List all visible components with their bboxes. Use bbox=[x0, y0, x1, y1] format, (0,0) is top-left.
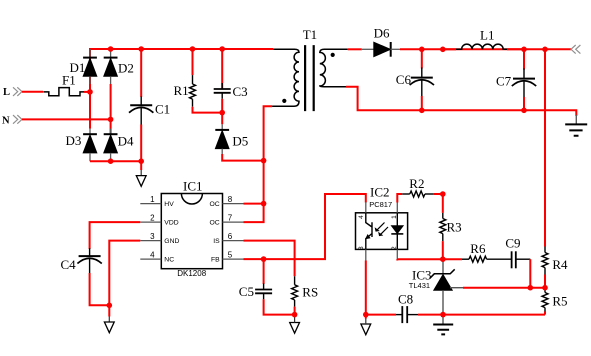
T1 primary winding bbox=[272, 49, 299, 106]
IC2 phototransistor bbox=[366, 213, 372, 250]
capacitor C6 bbox=[396, 49, 434, 110]
diode D1 bbox=[70, 49, 97, 84]
node snubber bbox=[219, 110, 225, 116]
inductor L1 bbox=[443, 28, 507, 50]
svg-text:5: 5 bbox=[228, 250, 233, 259]
wire bbox=[507, 48, 524, 50]
IC2 pin 3 stub bbox=[365, 249, 367, 260]
ground arrow (RS/C5) bbox=[290, 323, 300, 334]
wire bottom bridge node bbox=[90, 160, 141, 162]
T1 secondary phase dot bbox=[331, 53, 335, 57]
diode D5 bbox=[215, 113, 248, 154]
node rail C7 bbox=[521, 47, 527, 53]
wire top rail bbox=[90, 49, 273, 92]
svg-text:PC817: PC817 bbox=[369, 200, 392, 209]
T1 secondary winding bbox=[320, 49, 348, 86]
IC1 pin 4 NC bbox=[140, 258, 161, 260]
diode D4 bbox=[104, 119, 134, 161]
wire bbox=[140, 161, 142, 170]
IC1 pin 7 OC bbox=[223, 221, 244, 223]
wire ref line bbox=[463, 287, 545, 289]
wire FB bbox=[244, 194, 366, 259]
T1 primary phase dot bbox=[282, 99, 286, 103]
fuse F1 bbox=[43, 73, 84, 96]
wire VDD to C4 bbox=[90, 222, 141, 249]
svg-text:6: 6 bbox=[228, 232, 233, 241]
svg-text:4: 4 bbox=[150, 250, 155, 259]
diode D2 bbox=[104, 49, 134, 84]
capacitor C4 bbox=[61, 248, 110, 305]
ground arrow (IC2) bbox=[361, 324, 371, 335]
IC2 light arrows bbox=[376, 223, 388, 236]
wire bbox=[22, 118, 111, 120]
svg-text:C6: C6 bbox=[396, 72, 412, 87]
capacitor C8 bbox=[396, 292, 418, 324]
IC1 pin 3 GND bbox=[140, 240, 161, 242]
wire R6 line bbox=[443, 258, 462, 260]
svg-text:R2: R2 bbox=[409, 176, 424, 191]
shunt regulator IC3 TL431 bbox=[409, 259, 463, 314]
node OC pin8 bbox=[261, 201, 267, 207]
svg-text:8: 8 bbox=[228, 195, 233, 204]
svg-text:FB: FB bbox=[211, 257, 220, 264]
IC2 pin 2 stub bbox=[396, 249, 398, 260]
IC1 pin 6 IS bbox=[223, 240, 244, 242]
resistor R6 bbox=[462, 241, 512, 262]
node D5 out bbox=[261, 158, 267, 164]
IC1 pin 1 HV bbox=[140, 203, 161, 205]
node R4 R5 ref bbox=[542, 285, 548, 291]
svg-text:L1: L1 bbox=[480, 28, 494, 43]
svg-text:C9: C9 bbox=[505, 236, 520, 251]
wire bbox=[294, 315, 296, 317]
node RS C5 gnd bbox=[292, 312, 298, 318]
svg-text:C5: C5 bbox=[239, 284, 254, 299]
capacitor C1 bbox=[129, 49, 170, 161]
svg-text:VDD: VDD bbox=[164, 219, 178, 226]
svg-text:HV: HV bbox=[164, 201, 174, 208]
svg-text:IS: IS bbox=[213, 238, 220, 245]
svg-text:D4: D4 bbox=[118, 134, 134, 149]
node 0V C6 bbox=[419, 108, 425, 114]
svg-text:C1: C1 bbox=[155, 102, 170, 117]
ground (TL431) bbox=[433, 315, 453, 335]
node rail C3 bbox=[219, 46, 225, 52]
svg-text:D6: D6 bbox=[374, 26, 390, 41]
wire IC2 pin2 to R3 bottom bbox=[397, 259, 443, 260]
svg-text:NC: NC bbox=[164, 257, 174, 264]
svg-text:R1: R1 bbox=[174, 83, 189, 98]
resistor R4 bbox=[542, 247, 568, 288]
node rail D2 bbox=[108, 46, 114, 52]
svg-text:T1: T1 bbox=[303, 27, 317, 42]
wire bbox=[418, 314, 443, 316]
capacitor C3 bbox=[214, 49, 248, 113]
node L bbox=[3, 87, 22, 98]
resistor R5 bbox=[542, 288, 568, 315]
node FB C5 bbox=[261, 256, 267, 262]
resistor R2 bbox=[402, 176, 443, 197]
wire bbox=[110, 84, 112, 119]
svg-text:3: 3 bbox=[358, 246, 365, 250]
wire bbox=[365, 315, 367, 319]
node bridge bottom D4 bbox=[108, 158, 114, 164]
svg-text:C7: C7 bbox=[496, 74, 512, 89]
wire bbox=[244, 204, 264, 223]
capacitor C5 bbox=[239, 259, 295, 315]
svg-text:IC1: IC1 bbox=[183, 179, 203, 194]
svg-text:C8: C8 bbox=[398, 292, 413, 307]
node rail C1 bbox=[138, 46, 144, 52]
wire IS to RS bbox=[244, 241, 295, 277]
node C4 gnd bbox=[107, 303, 113, 309]
ground arrow (IC1 gnd) bbox=[108, 317, 110, 323]
svg-text:D3: D3 bbox=[66, 133, 82, 148]
svg-text:7: 7 bbox=[228, 213, 233, 222]
node L-fuse junction bbox=[87, 89, 93, 95]
wire pin1 IC2 to R2 bbox=[397, 194, 402, 203]
IC2 pin 1 stub bbox=[396, 202, 398, 213]
wire bbox=[84, 91, 90, 93]
svg-text:C4: C4 bbox=[61, 257, 77, 272]
wire secondary return bbox=[346, 87, 576, 116]
svg-text:OC: OC bbox=[209, 219, 219, 226]
node output bbox=[571, 45, 580, 54]
wire IC2 pin3 to ground bbox=[366, 261, 396, 315]
node bridge bottom C1 bbox=[138, 158, 144, 164]
node D6 C6 bbox=[419, 47, 425, 53]
svg-text:D1: D1 bbox=[70, 60, 86, 75]
IC1 pin 2 VDD bbox=[140, 221, 161, 223]
svg-text:N: N bbox=[2, 115, 10, 126]
IC2 pin 4 stub bbox=[365, 202, 367, 213]
T1 core bbox=[305, 45, 314, 111]
svg-text:D5: D5 bbox=[232, 134, 248, 149]
node rail R1 bbox=[190, 46, 196, 52]
node N bbox=[2, 115, 22, 126]
capacitor C7 bbox=[496, 49, 536, 110]
svg-text:R3: R3 bbox=[447, 220, 462, 235]
node C8 right gnd bbox=[440, 312, 446, 318]
wire bottom return bbox=[443, 314, 545, 316]
node N junction bbox=[108, 117, 114, 123]
wire output rail bbox=[400, 48, 571, 50]
svg-text:IC2: IC2 bbox=[370, 184, 390, 199]
resistor R3 bbox=[440, 194, 462, 259]
svg-text:2: 2 bbox=[150, 213, 155, 222]
IC1 pin 5 FB bbox=[223, 258, 244, 260]
transformer T1 bbox=[272, 27, 348, 111]
svg-text:R6: R6 bbox=[470, 241, 486, 256]
resistor RS bbox=[292, 276, 319, 314]
IC1 pin 8 OC bbox=[223, 203, 244, 205]
wire C9 to ref line bbox=[529, 259, 531, 288]
svg-text:C3: C3 bbox=[233, 84, 248, 99]
IC1 DK1208 bbox=[140, 179, 243, 278]
wire primary column to IC bbox=[263, 161, 265, 204]
diode D3 bbox=[66, 129, 97, 162]
wire bbox=[22, 91, 43, 93]
capacitor C9 bbox=[505, 236, 530, 269]
svg-text:3: 3 bbox=[150, 232, 155, 241]
svg-text:GND: GND bbox=[164, 238, 179, 245]
wire bbox=[222, 154, 263, 161]
node C9 ref bbox=[528, 285, 534, 291]
ground (output) bbox=[565, 115, 587, 136]
svg-text:D2: D2 bbox=[118, 61, 134, 76]
wire +V feedback column bbox=[544, 49, 546, 246]
svg-text:R5: R5 bbox=[552, 294, 567, 309]
diode D6 bbox=[362, 26, 400, 57]
optocoupler IC2 PC817 bbox=[356, 184, 408, 260]
ground arrow (bridge) bbox=[140, 170, 142, 176]
svg-text:RS: RS bbox=[302, 285, 318, 300]
node R3 opto TL431 bbox=[440, 256, 446, 262]
svg-text:DK1208: DK1208 bbox=[177, 269, 206, 278]
svg-text:4: 4 bbox=[358, 215, 365, 219]
node 0V C7 bbox=[521, 108, 527, 114]
wire bbox=[89, 84, 91, 129]
wire primary bottom bbox=[264, 106, 273, 160]
svg-text:L: L bbox=[3, 87, 10, 98]
resistor R1 bbox=[174, 49, 223, 113]
svg-text:TL431: TL431 bbox=[409, 281, 430, 290]
node C8 left bbox=[363, 312, 369, 318]
svg-text:OC: OC bbox=[209, 201, 219, 208]
wire secondary to D6 bbox=[348, 48, 362, 50]
IC2 LED bbox=[396, 213, 398, 226]
node rail R4 col bbox=[542, 47, 548, 53]
node R2 R3 bbox=[440, 191, 446, 197]
svg-text:1: 1 bbox=[150, 195, 155, 204]
wire pin8 to column bbox=[244, 203, 264, 205]
wire GND to ground bbox=[109, 241, 140, 317]
svg-text:R4: R4 bbox=[552, 257, 568, 272]
node rail R2R3 bbox=[440, 47, 446, 53]
